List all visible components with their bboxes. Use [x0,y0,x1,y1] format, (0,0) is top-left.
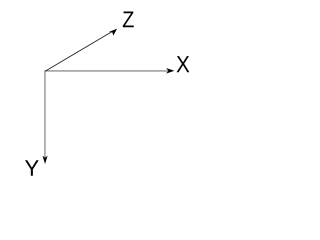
X axis arrowhead [166,68,174,74]
X axis line [45,70,169,72]
Y axis line [44,70,46,158]
label X [177,56,190,72]
label Z [123,11,134,27]
Z axis arrowhead [109,29,117,36]
Y axis arrowhead [42,156,47,165]
Z axis line [45,32,112,72]
label Y [25,160,39,176]
